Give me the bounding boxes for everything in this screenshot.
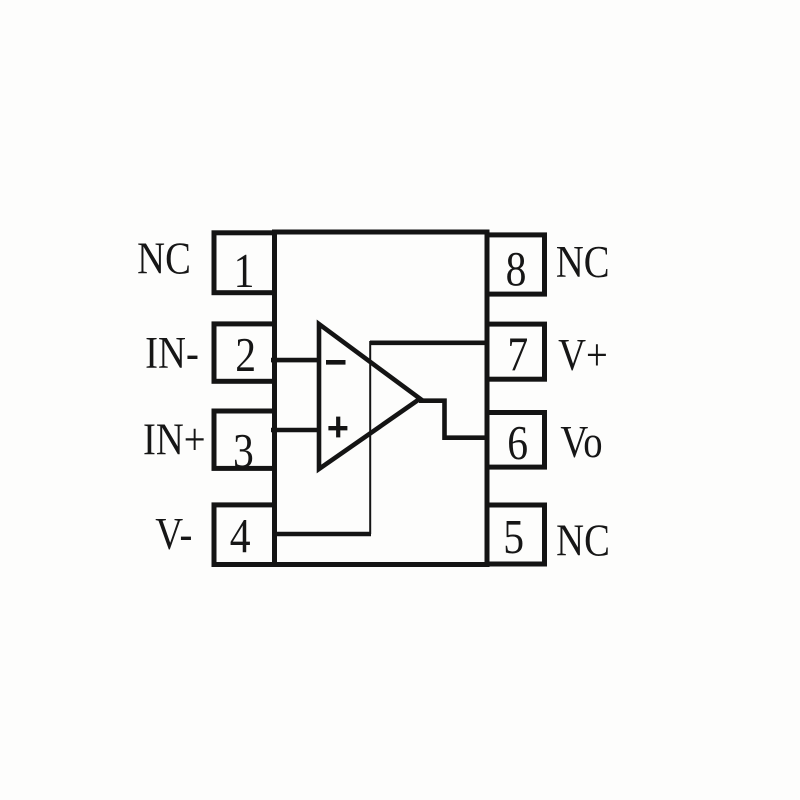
svg-text:7: 7 <box>507 326 528 381</box>
svg-text:IN-: IN- <box>145 328 199 379</box>
svg-text:1: 1 <box>234 243 255 298</box>
svg-text:V-: V- <box>155 509 192 560</box>
svg-text:5: 5 <box>503 509 524 564</box>
svg-text:NC: NC <box>137 233 191 284</box>
svg-text:8: 8 <box>506 241 527 296</box>
svg-text:NC: NC <box>556 515 610 566</box>
svg-text:4: 4 <box>230 508 251 563</box>
svg-text:Vo: Vo <box>560 417 602 468</box>
svg-text:V+: V+ <box>558 330 608 381</box>
svg-text:IN+: IN+ <box>143 414 206 465</box>
svg-text:2: 2 <box>235 327 256 382</box>
svg-text:NC: NC <box>556 237 610 288</box>
svg-text:6: 6 <box>507 415 528 470</box>
svg-text:3: 3 <box>233 423 254 478</box>
